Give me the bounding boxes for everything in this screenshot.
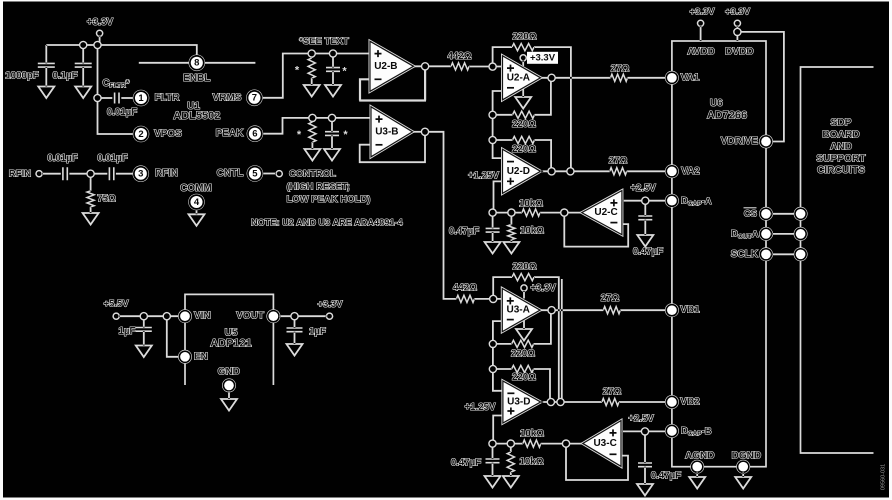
- op-amp U3-B: [371, 107, 413, 157]
- pin CS: [759, 207, 773, 221]
- svg-text:0.47µF: 0.47µF: [449, 226, 479, 237]
- svg-text:AVDD: AVDD: [687, 47, 715, 58]
- svg-text:10kΩ: 10kΩ: [520, 225, 544, 236]
- junction dot U2-B out: [422, 63, 429, 70]
- svg-text:GND: GND: [218, 367, 240, 378]
- svg-text:CS: CS: [744, 209, 757, 220]
- junction dot DVDD loop: [734, 28, 741, 35]
- ground peak filter R: [304, 149, 320, 161]
- ground 1uF out: [287, 344, 303, 356]
- junction dot U3-D out B: [557, 398, 564, 405]
- svg-text:+3.3V: +3.3V: [317, 299, 343, 310]
- wire 442 to U3-A: [474, 298, 502, 300]
- junction dot U2-A plus: [489, 63, 496, 70]
- svg-text:U2-A: U2-A: [507, 72, 530, 83]
- junction dot U3-A out: [548, 307, 555, 314]
- ground 0.47 lower: [485, 476, 501, 488]
- svg-text:2: 2: [138, 129, 143, 140]
- wire 27 to VA1: [628, 77, 667, 79]
- junction dot RFIN node: [87, 170, 94, 177]
- ground 0.1uF: [75, 87, 91, 99]
- svg-text:CIRCUITS: CIRCUITS: [817, 165, 865, 176]
- resistor 27ohm VA1: [611, 74, 628, 81]
- wire U2-A gnd stem: [522, 86, 524, 97]
- junction dot U3-C out: [562, 440, 569, 447]
- svg-text:(HIGH RESET;: (HIGH RESET;: [287, 181, 350, 192]
- wire U3-C plus to DCAPB: [621, 430, 666, 432]
- svg-text:27Ω: 27Ω: [601, 293, 620, 304]
- op-amp U2-D: [503, 149, 541, 193]
- wire SCLK to SDP: [772, 253, 795, 255]
- resistor 220ohm lower2: [512, 340, 534, 347]
- wire U3-B output: [413, 131, 426, 133]
- pin 4 COMM: [188, 194, 205, 211]
- wire 5.5V to VIN: [119, 315, 180, 317]
- svg-text:220Ω: 220Ω: [511, 349, 535, 360]
- svg-text:3: 3: [138, 169, 143, 180]
- pin SDP SCLK: [794, 247, 808, 261]
- svg-text:VOUT: VOUT: [236, 311, 264, 322]
- svg-text:0.01µF: 0.01µF: [47, 153, 77, 164]
- junction dot 220-3 left: [489, 136, 496, 143]
- resistor 220ohm upper2: [513, 111, 535, 118]
- svg-text:*SEE TEXT: *SEE TEXT: [299, 36, 349, 47]
- wire divider lower: [493, 443, 583, 445]
- supply AVDD terminal: [698, 20, 704, 26]
- svg-text:*: *: [297, 129, 302, 141]
- op-amp U2-B: [370, 41, 414, 91]
- svg-text:220Ω: 220Ω: [513, 31, 537, 42]
- pin GND: [222, 378, 236, 392]
- terminal CONTROL: [276, 171, 282, 177]
- wire COMM to ground: [196, 210, 198, 214]
- svg-text:10kΩ: 10kΩ: [520, 456, 544, 467]
- wire 220-1 lower: [493, 277, 559, 402]
- svg-text:27Ω: 27Ω: [609, 156, 628, 167]
- svg-text:AND: AND: [830, 141, 852, 152]
- pin 8 ENBL: [189, 55, 206, 72]
- wire U3-A minus chain: [493, 321, 503, 391]
- wire AGND stem: [696, 473, 698, 478]
- resistor 10k lower V: [510, 444, 512, 452]
- wire VOUT to 3.3V: [279, 315, 326, 317]
- IC box U6 AD7266: [672, 41, 766, 467]
- op-amp U2-C: [582, 191, 622, 235]
- supply DVDD terminal: [734, 20, 740, 26]
- wire cap2 to pin3: [116, 173, 133, 175]
- op-amp U3-A: [502, 289, 540, 332]
- svg-text:VIN: VIN: [194, 311, 211, 322]
- wire GND stem: [228, 391, 230, 399]
- svg-text:SDP: SDP: [831, 118, 852, 129]
- pin 7 VRMS: [246, 90, 263, 107]
- wire U2-D plus input: [494, 181, 503, 212]
- ground dcapA: [637, 235, 653, 247]
- pin SCLK: [759, 247, 773, 261]
- wire 220-2 lower: [493, 310, 551, 344]
- junction dot rail A: [80, 41, 87, 48]
- terminal +3.3V out: [326, 313, 332, 319]
- svg-text:0.47µF: 0.47µF: [651, 470, 681, 481]
- junction dot peak filter C: [328, 114, 335, 121]
- op-amp U3-D: [503, 381, 541, 423]
- svg-text:ENBL: ENBL: [183, 73, 210, 84]
- wire U3-A gnd stem: [523, 318, 525, 329]
- pin 6 PEAK: [247, 125, 264, 142]
- svg-text:VA1: VA1: [681, 72, 700, 83]
- ground 1000pF: [38, 87, 54, 99]
- wire U2-A output: [541, 77, 611, 79]
- pin 1 FLTR: [133, 90, 150, 107]
- junction dot U3-B out: [421, 128, 428, 135]
- junction dot reg EN: [163, 313, 170, 320]
- svg-text:U3-A: U3-A: [507, 305, 530, 316]
- svg-text:CONTROL: CONTROL: [289, 169, 336, 180]
- svg-text:*: *: [295, 65, 300, 77]
- svg-text:DGND: DGND: [732, 451, 761, 462]
- resistor 220ohm lower1: [512, 274, 534, 281]
- op-amp U2-A: [503, 56, 541, 100]
- svg-text:U6: U6: [710, 98, 723, 109]
- ground U3-A: [516, 329, 532, 341]
- SDP board outline: [801, 67, 874, 453]
- wire 27 to VB2: [619, 401, 666, 403]
- svg-text:1: 1: [138, 93, 144, 104]
- capacitor 0.47uF dcapA: [644, 201, 646, 216]
- pin AGND: [690, 460, 704, 474]
- svg-text:SUPPORT: SUPPORT: [816, 153, 866, 164]
- svg-text:VB2: VB2: [680, 397, 700, 408]
- junction dot rms filter R: [308, 50, 315, 57]
- junction dot rms filter C: [329, 50, 336, 57]
- svg-text:0.1µF: 0.1µF: [53, 71, 78, 82]
- resistor 220ohm lower3: [512, 365, 534, 372]
- ground AGND: [689, 477, 705, 489]
- wire 220-3 lower: [493, 369, 550, 402]
- svg-text:VA2: VA2: [681, 166, 700, 177]
- svg-text:FLTR: FLTR: [155, 93, 181, 104]
- svg-text:RFIN: RFIN: [155, 168, 178, 179]
- svg-text:CNTL: CNTL: [217, 168, 244, 179]
- ground DGND: [735, 477, 751, 489]
- ground 75ohm: [83, 213, 99, 225]
- svg-text:+2.5V: +2.5V: [630, 183, 656, 194]
- wire pin8 horizontal: [139, 62, 256, 64]
- svg-text:0.47µF: 0.47µF: [451, 457, 481, 468]
- capacitor 0.1uF: [82, 45, 84, 63]
- ground COMM: [189, 214, 205, 226]
- svg-text:U2-D: U2-D: [507, 166, 530, 177]
- pin 5 CNTL: [247, 165, 264, 182]
- svg-text:U2-B: U2-B: [374, 61, 397, 72]
- svg-text:EN: EN: [194, 351, 208, 362]
- svg-text:+1.25V: +1.25V: [468, 171, 500, 182]
- svg-text:+3.3V: +3.3V: [530, 53, 556, 64]
- svg-text:RFIN: RFIN: [9, 169, 31, 180]
- svg-text:AD7266: AD7266: [707, 110, 747, 122]
- pin DGND: [736, 460, 750, 474]
- svg-text:220Ω: 220Ω: [512, 144, 536, 155]
- svg-text:220Ω: 220Ω: [512, 372, 536, 383]
- svg-text:0.01µF: 0.01µF: [97, 153, 127, 164]
- capacitor 1uF out: [294, 316, 296, 328]
- wire CNTL to control: [263, 173, 276, 175]
- svg-text:4: 4: [194, 197, 200, 208]
- ground U5 GND: [221, 399, 237, 411]
- wire PEAK to U3-B input: [263, 118, 371, 134]
- wire EN branch: [167, 316, 181, 357]
- wire divider upper: [493, 212, 582, 214]
- ground U2-A: [515, 97, 531, 109]
- junction dot peak filter R: [309, 114, 316, 121]
- capacitor 1000pF: [45, 45, 47, 63]
- terminal +5.5V: [113, 313, 119, 319]
- pin VIN: [178, 309, 192, 323]
- wire DOUTA to SDP: [772, 233, 795, 235]
- ground 10k lower: [503, 476, 519, 488]
- svg-text:442Ω: 442Ω: [448, 51, 472, 62]
- resistor 27ohm VA2: [610, 168, 627, 175]
- junction dot U2-D out A: [548, 168, 555, 175]
- svg-text:10kΩ: 10kΩ: [520, 428, 544, 439]
- svg-text:8: 8: [194, 58, 199, 69]
- svg-text:BOARD: BOARD: [822, 130, 859, 141]
- ground peak filter C: [324, 149, 340, 161]
- svg-text:+2.5V: +2.5V: [628, 413, 654, 424]
- wire 220-2 upper: [493, 78, 551, 115]
- wire RFIN to cap1: [42, 173, 61, 175]
- supply U3-A +3.3V: [523, 291, 525, 299]
- svg-text:ADP121: ADP121: [210, 337, 252, 349]
- wire U2-D output: [541, 170, 610, 172]
- pin VB1: [665, 303, 679, 317]
- svg-text:220Ω: 220Ω: [512, 119, 536, 130]
- pin EN: [178, 350, 192, 364]
- svg-text:220Ω: 220Ω: [513, 261, 537, 272]
- ground dcapB: [637, 484, 653, 496]
- supply U2-A +3.3V: [522, 61, 524, 67]
- resistor 442ohm lower: [456, 295, 474, 302]
- junction dot out cap: [291, 313, 298, 320]
- resistor 220ohm upper1: [512, 44, 534, 51]
- capacitor peak filter: [331, 118, 333, 132]
- wire VRMS to U2-B input: [263, 54, 370, 98]
- svg-text:DVDD: DVDD: [725, 47, 753, 58]
- pin DCAP-A: [665, 194, 679, 208]
- svg-text:442Ω: 442Ω: [453, 283, 477, 294]
- capacitor CFLTR 0.01uF: [98, 97, 113, 99]
- svg-text:27Ω: 27Ω: [611, 63, 630, 74]
- resistor rms filter: [311, 54, 313, 59]
- svg-text:75Ω: 75Ω: [97, 194, 116, 205]
- pin VDRIVE: [759, 135, 773, 149]
- svg-text:7: 7: [252, 93, 257, 104]
- svg-text:1µF: 1µF: [309, 327, 326, 338]
- wire U2-C feedback: [564, 213, 628, 247]
- svg-text:+3.3V: +3.3V: [689, 7, 715, 18]
- svg-text:PEAK: PEAK: [216, 128, 245, 139]
- junction dot U3-A plus: [490, 295, 497, 302]
- wire U3-D plus input: [493, 416, 503, 444]
- wire U2-A minus chain: [493, 91, 503, 158]
- junction dot 2.5V lower: [641, 428, 648, 435]
- svg-text:1000pF: 1000pF: [5, 71, 38, 82]
- pin VOUT: [266, 309, 280, 323]
- supply +3.3V terminal: [97, 30, 103, 36]
- wire 442 to U2-A: [469, 66, 503, 68]
- wire U3-B down to lower: [425, 132, 456, 299]
- svg-text:5: 5: [252, 168, 258, 179]
- wire 27 to VA2: [627, 170, 666, 172]
- capacitor 1uF in: [143, 316, 145, 327]
- svg-text:SCLK: SCLK: [731, 249, 759, 260]
- junction dot reg cap: [140, 313, 147, 320]
- wire 27 to VB1: [620, 309, 666, 311]
- svg-text:*: *: [343, 129, 348, 141]
- terminal RFIN: [36, 171, 42, 177]
- resistor 10k lower H: [523, 440, 541, 447]
- op-amp U3-C: [583, 421, 621, 467]
- svg-text:+3.3V: +3.3V: [87, 17, 114, 28]
- capacitor 0.47uF dcapB: [644, 431, 646, 463]
- resistor 442ohm upper: [451, 63, 469, 70]
- resistor 10k upper H: [522, 209, 540, 216]
- svg-text:1µF: 1µF: [119, 326, 136, 337]
- ground rms filter R: [304, 85, 320, 97]
- resistor 220ohm upper3: [513, 136, 535, 143]
- junction dot U3-D out A: [547, 398, 554, 405]
- svg-text:U3-B: U3-B: [375, 126, 398, 137]
- resistor 27ohm VB1: [603, 307, 620, 314]
- ground 1uF in: [136, 346, 152, 358]
- capacitor 0.01uF input1: [63, 167, 67, 180]
- junction dot 220-3L left: [489, 365, 496, 372]
- pin DOUTA: [759, 227, 773, 241]
- svg-text:*: *: [342, 66, 347, 78]
- resistor 10k upper V: [510, 213, 512, 225]
- junction dot FLTR branch: [94, 94, 101, 101]
- svg-text:ADL5502: ADL5502: [173, 110, 220, 122]
- wire 220-1 upper: [493, 47, 571, 171]
- svg-text:U3-D: U3-D: [507, 397, 530, 408]
- svg-text:NOTE: U2 AND U3 ARE ADA4891-4: NOTE: U2 AND U3 ARE ADA4891-4: [251, 217, 404, 227]
- svg-text:U2-C: U2-C: [594, 207, 617, 218]
- wire U3-D output: [541, 401, 602, 403]
- wire U2-B feedback: [359, 66, 426, 100]
- wire 220-3 upper: [493, 140, 551, 171]
- svg-text:VB1: VB1: [680, 305, 700, 316]
- svg-text:0.01µF: 0.01µF: [107, 107, 137, 118]
- svg-text:0.47µF: 0.47µF: [633, 247, 663, 258]
- junction dot 220-2 left: [489, 111, 496, 118]
- capacitor 0.47uF upper: [492, 213, 494, 229]
- pin VA1: [665, 71, 679, 85]
- pin 3 RFIN: [133, 165, 150, 182]
- svg-text:VPOS: VPOS: [154, 129, 182, 140]
- capacitor 0.01uF input2: [109, 167, 113, 180]
- svg-text:U3-C: U3-C: [593, 438, 616, 449]
- pin DCAP-B: [665, 424, 679, 438]
- resistor 27ohm VB2: [602, 398, 619, 405]
- svg-text:+5.5V: +5.5V: [103, 298, 129, 309]
- pin VB2: [665, 395, 679, 409]
- wire DGND stem: [742, 473, 744, 478]
- capacitor rms filter: [332, 54, 334, 68]
- wire +3.3V rail to ENBL: [46, 45, 197, 55]
- wire U3-B feedback: [360, 132, 425, 162]
- pin SDP CS: [794, 207, 808, 221]
- pin VA2: [665, 164, 679, 178]
- svg-text:09560-031: 09560-031: [881, 464, 887, 490]
- svg-text:10kΩ: 10kΩ: [519, 198, 543, 209]
- ground 10k upper: [503, 242, 519, 254]
- capacitor 0.47uF lower: [492, 444, 494, 459]
- junction dot U2-D out B: [567, 168, 574, 175]
- svg-text:+3.3V: +3.3V: [725, 7, 751, 18]
- svg-text:6: 6: [252, 129, 257, 140]
- wire U2-B output: [414, 65, 452, 67]
- pin 2 VPOS: [133, 126, 150, 143]
- junction dot U2-C out: [561, 209, 568, 216]
- junction dot 220-2L left: [489, 340, 496, 347]
- ground rms filter C: [325, 85, 341, 97]
- wire VPOS rail: [98, 45, 133, 134]
- junction dot div res L: [507, 440, 514, 447]
- junction dot U2-A out: [548, 74, 555, 81]
- svg-text:AGND: AGND: [685, 451, 714, 462]
- ground 0.47 upper: [485, 242, 501, 254]
- wire VDRIVE loop: [737, 32, 784, 142]
- svg-text:+3.3V: +3.3V: [530, 283, 556, 294]
- junction dot div cap: [489, 209, 496, 216]
- svg-text:VDRIVE: VDRIVE: [721, 136, 759, 147]
- junction dot div cap L: [489, 440, 496, 447]
- pin SDP DOUTA: [794, 227, 808, 241]
- wire U2-C plus to DCAPA: [622, 200, 666, 202]
- wire U3-C feedback: [566, 444, 628, 480]
- wire U3-A output: [540, 309, 603, 311]
- junction dot rail B: [94, 41, 101, 48]
- resistor peak filter: [311, 118, 313, 122]
- svg-text:COMM: COMM: [180, 183, 212, 194]
- junction dot 2.5V upper: [642, 197, 649, 204]
- svg-text:+1.25V: +1.25V: [465, 402, 497, 413]
- svg-text:VRMS: VRMS: [213, 92, 242, 103]
- svg-text:LOW PEAK HOLD): LOW PEAK HOLD): [287, 194, 371, 205]
- wire cap1 to cap2: [69, 173, 107, 175]
- resistor 75ohm: [90, 174, 92, 191]
- wire CS to SDP: [772, 213, 795, 215]
- IC box U5 ADP121: [185, 294, 273, 385]
- junction dot div res: [508, 209, 515, 216]
- svg-text:27Ω: 27Ω: [603, 386, 622, 397]
